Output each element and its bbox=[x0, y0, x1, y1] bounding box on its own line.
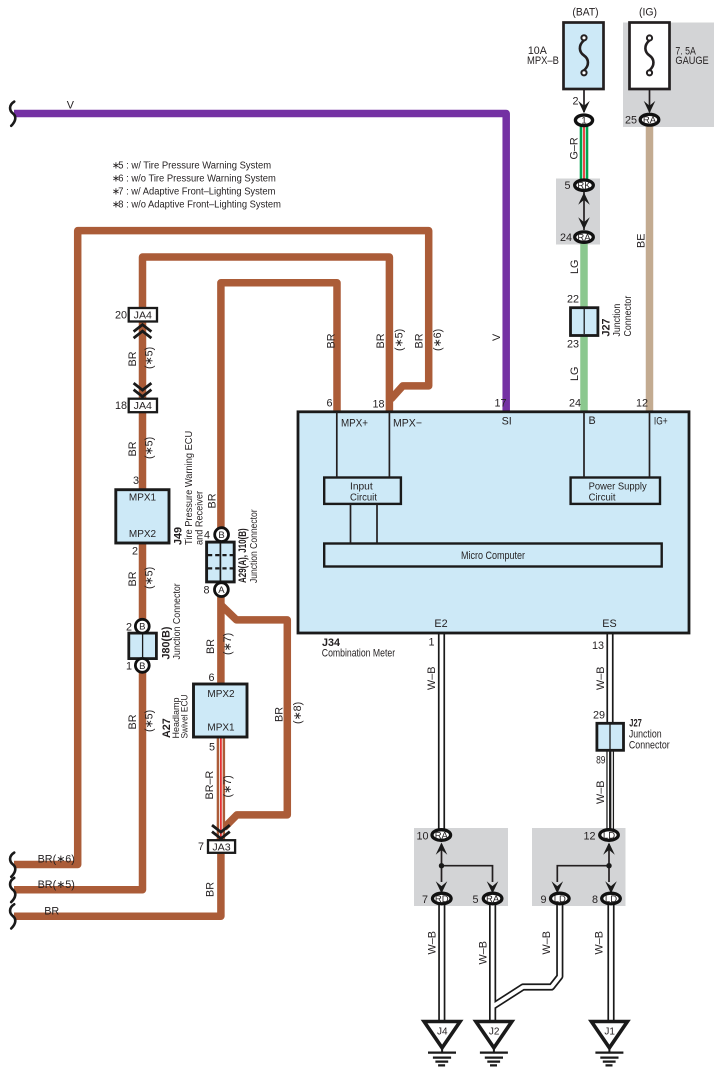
svg-text:24: 24 bbox=[569, 398, 581, 410]
svg-text:BE: BE bbox=[636, 234, 648, 248]
svg-text:2: 2 bbox=[572, 96, 578, 108]
svg-text:1: 1 bbox=[428, 637, 434, 649]
svg-text:8: 8 bbox=[203, 585, 209, 597]
svg-text:BR: BR bbox=[205, 882, 217, 897]
svg-text:Swivel ECU: Swivel ECU bbox=[179, 694, 190, 738]
svg-text:29: 29 bbox=[593, 710, 605, 722]
svg-text:IG+: IG+ bbox=[654, 416, 668, 428]
svg-text:(BAT): (BAT) bbox=[572, 7, 598, 19]
svg-text:LD: LD bbox=[605, 894, 617, 905]
svg-text:(∗5): (∗5) bbox=[143, 437, 155, 459]
svg-text:(∗6): (∗6) bbox=[432, 329, 444, 351]
svg-text:BR(∗6): BR(∗6) bbox=[38, 854, 75, 866]
svg-text:5 : w/ Tire Pressure Warning S: 5 : w/ Tire Pressure Warning System bbox=[118, 161, 271, 172]
svg-text:ES: ES bbox=[602, 618, 616, 630]
svg-text:BR: BR bbox=[205, 639, 217, 654]
svg-text:5: 5 bbox=[472, 894, 478, 906]
svg-text:Tire Pressure Warning ECU: Tire Pressure Warning ECU bbox=[184, 431, 195, 545]
svg-text:8: 8 bbox=[592, 894, 598, 906]
svg-text:(∗5): (∗5) bbox=[143, 710, 155, 732]
svg-text:W–B: W–B bbox=[541, 931, 553, 954]
svg-text:5: 5 bbox=[564, 180, 570, 192]
svg-text:W–B: W–B bbox=[595, 667, 607, 690]
svg-text:W–B: W–B bbox=[427, 931, 439, 954]
svg-text:BR–R: BR–R bbox=[204, 770, 216, 799]
svg-text:10: 10 bbox=[416, 831, 428, 843]
svg-text:Circuit: Circuit bbox=[589, 493, 616, 504]
svg-text:W–B: W–B bbox=[594, 931, 606, 954]
svg-text:25: 25 bbox=[625, 115, 637, 127]
svg-text:RA: RA bbox=[643, 115, 657, 126]
svg-text:24: 24 bbox=[560, 232, 572, 244]
svg-text:B: B bbox=[589, 415, 596, 427]
svg-text:JA4: JA4 bbox=[134, 310, 153, 321]
svg-text:W–B: W–B bbox=[426, 667, 438, 690]
svg-text:Connector: Connector bbox=[629, 740, 670, 752]
svg-text:MPX1: MPX1 bbox=[129, 492, 157, 503]
svg-text:5: 5 bbox=[209, 742, 215, 754]
svg-text:(∗5): (∗5) bbox=[394, 329, 406, 351]
svg-text:LD: LD bbox=[554, 894, 566, 905]
svg-text:MPX1: MPX1 bbox=[207, 723, 235, 734]
svg-text:J49: J49 bbox=[173, 527, 185, 545]
svg-text:2: 2 bbox=[132, 546, 138, 558]
svg-text:Circuit: Circuit bbox=[350, 493, 377, 504]
svg-text:A29(A), J10(B): A29(A), J10(B) bbox=[237, 528, 249, 583]
svg-text:9: 9 bbox=[540, 894, 546, 906]
svg-text:18: 18 bbox=[115, 400, 127, 412]
svg-text:8 : w/o Adaptive Front–Lightin: 8 : w/o Adaptive Front–Lighting System bbox=[118, 200, 281, 211]
svg-text:(∗5): (∗5) bbox=[143, 347, 155, 369]
svg-text:1: 1 bbox=[581, 116, 586, 127]
svg-text:89: 89 bbox=[596, 755, 605, 767]
svg-text:Power Supply: Power Supply bbox=[589, 482, 647, 493]
svg-text:12: 12 bbox=[583, 831, 595, 843]
svg-text:Junction Connector: Junction Connector bbox=[249, 509, 260, 583]
svg-text:12: 12 bbox=[636, 398, 648, 410]
svg-text:LG: LG bbox=[569, 260, 581, 274]
svg-text:RA: RA bbox=[435, 830, 449, 841]
svg-text:BR: BR bbox=[127, 571, 139, 586]
svg-text:BR: BR bbox=[127, 351, 139, 366]
svg-text:BR: BR bbox=[127, 714, 139, 729]
svg-text:23: 23 bbox=[567, 339, 579, 351]
svg-text:BR: BR bbox=[127, 441, 139, 456]
svg-text:BR: BR bbox=[273, 707, 285, 722]
svg-text:V: V bbox=[67, 100, 75, 112]
svg-text:BR: BR bbox=[375, 333, 387, 348]
svg-text:17: 17 bbox=[494, 398, 506, 410]
svg-text:BR: BR bbox=[44, 906, 59, 918]
svg-text:W–B: W–B bbox=[595, 781, 607, 804]
svg-text:JA4: JA4 bbox=[134, 401, 153, 412]
svg-text:RD: RD bbox=[435, 894, 449, 905]
svg-text:Junction: Junction bbox=[612, 304, 623, 337]
svg-text:J2: J2 bbox=[489, 1027, 500, 1038]
svg-text:B: B bbox=[218, 530, 224, 541]
svg-text:20: 20 bbox=[115, 310, 127, 322]
svg-text:22: 22 bbox=[567, 294, 579, 306]
svg-text:7: 7 bbox=[198, 841, 204, 853]
svg-text:BR: BR bbox=[207, 493, 219, 508]
svg-text:J1: J1 bbox=[604, 1027, 615, 1038]
svg-text:G–R: G–R bbox=[569, 137, 581, 159]
svg-text:J27: J27 bbox=[601, 318, 613, 336]
svg-text:(∗7): (∗7) bbox=[222, 633, 234, 655]
svg-text:B: B bbox=[139, 661, 145, 672]
svg-text:MPX2: MPX2 bbox=[129, 529, 157, 540]
svg-text:7 : w/ Adaptive Front–Lighting: 7 : w/ Adaptive Front–Lighting System bbox=[118, 187, 275, 198]
svg-text:LD: LD bbox=[603, 830, 615, 841]
svg-text:18: 18 bbox=[372, 399, 384, 411]
svg-text:6 : w/o Tire Pressure Warning: 6 : w/o Tire Pressure Warning System bbox=[118, 174, 275, 185]
svg-text:B: B bbox=[139, 622, 145, 633]
svg-text:(∗8): (∗8) bbox=[292, 702, 304, 724]
svg-text:1: 1 bbox=[126, 661, 132, 673]
svg-text:RA: RA bbox=[577, 233, 591, 244]
svg-text:SI: SI bbox=[502, 416, 512, 428]
svg-text:6: 6 bbox=[326, 398, 332, 410]
svg-text:MPX–B: MPX–B bbox=[527, 55, 559, 67]
svg-text:(IG): (IG) bbox=[639, 7, 657, 19]
svg-text:MPX2: MPX2 bbox=[207, 689, 235, 700]
svg-text:GAUGE: GAUGE bbox=[675, 55, 708, 67]
svg-text:Micro Computer: Micro Computer bbox=[461, 550, 525, 562]
svg-text:V: V bbox=[491, 333, 503, 341]
svg-text:LG: LG bbox=[569, 367, 581, 381]
svg-text:W–B: W–B bbox=[478, 941, 490, 964]
svg-text:Combination Meter: Combination Meter bbox=[322, 647, 396, 659]
svg-text:(∗7): (∗7) bbox=[222, 775, 234, 797]
svg-text:Junction Connector: Junction Connector bbox=[172, 583, 183, 660]
svg-text:BR: BR bbox=[414, 333, 426, 348]
svg-text:RA: RA bbox=[486, 894, 500, 905]
svg-text:BR: BR bbox=[326, 333, 338, 348]
svg-text:JA3: JA3 bbox=[212, 842, 231, 853]
svg-text:and Receiver: and Receiver bbox=[195, 490, 206, 545]
svg-text:BR(∗5): BR(∗5) bbox=[38, 879, 75, 891]
svg-text:MPX−: MPX− bbox=[393, 418, 422, 430]
svg-text:J80(B): J80(B) bbox=[161, 626, 173, 659]
svg-text:2: 2 bbox=[126, 622, 132, 634]
svg-text:A: A bbox=[218, 585, 225, 596]
svg-text:RK: RK bbox=[577, 181, 591, 192]
svg-text:Input: Input bbox=[350, 482, 373, 493]
svg-text:(∗5): (∗5) bbox=[143, 567, 155, 589]
svg-text:13: 13 bbox=[592, 640, 604, 652]
svg-text:Connector: Connector bbox=[623, 295, 634, 336]
svg-text:J4: J4 bbox=[437, 1027, 448, 1038]
svg-text:MPX+: MPX+ bbox=[341, 418, 368, 430]
svg-text:6: 6 bbox=[208, 672, 214, 684]
svg-text:E2: E2 bbox=[434, 618, 447, 630]
svg-text:3: 3 bbox=[133, 475, 139, 487]
svg-text:7: 7 bbox=[422, 894, 428, 906]
